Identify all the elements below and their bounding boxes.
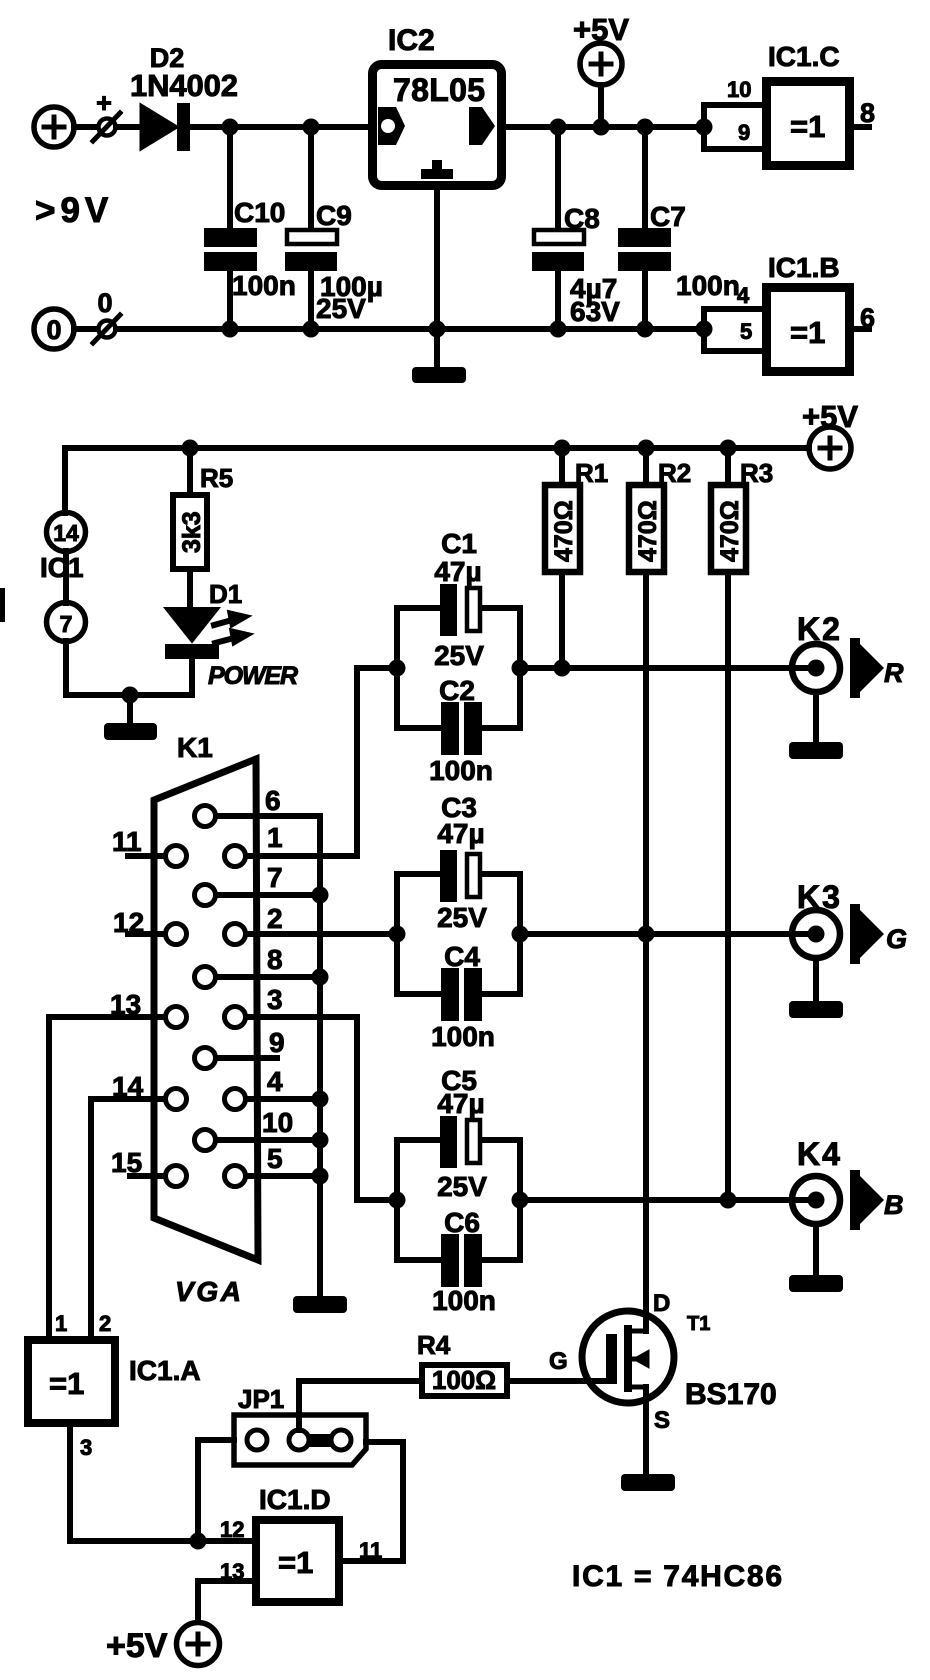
svg-text:C8: C8 [564,203,600,234]
capacitor block C5/C6 left rail [394,1140,400,1260]
JP1 pin b contact [289,1430,309,1450]
junction: pin 7 on bus [312,887,329,904]
IC1.C tied input structure pins 10/9 [704,105,766,149]
junction: R5 top on +5V rail [182,440,199,457]
wire: pin 14 (VS) to IC1.A pin 2 [91,1099,164,1336]
wire: VGA pin 3 node to C5/C6 block [357,1197,397,1203]
svg-text:6: 6 [265,785,281,816]
junction: pin 8 on bus [312,969,329,986]
svg-text:IC1.B: IC1.B [768,252,840,283]
IC1 supply pin 14 [47,513,86,552]
junction: R2/T1 drain on green line [638,926,655,943]
IC2 internal ground symbol [421,169,453,179]
wire: pin 2 (green video) to C3/C4 [247,931,397,937]
svg-text:D1: D1 [209,579,242,609]
wire: K2 ground stub [813,692,819,742]
ground symbol under K3 [789,1001,843,1018]
wire: pin 5 to ground bus [247,1173,320,1179]
svg-text:25V: 25V [437,902,487,933]
capacitor C2 100n [397,725,520,731]
junction: R2 top on +5V rail [638,440,655,457]
junction: C7 top node [637,119,654,136]
svg-text:3k3: 3k3 [178,511,206,553]
wire: D2 cathode to IC2 input [190,124,368,130]
resistor R2 470ohm [643,448,649,934]
wire: pin 13 (HS) to IC1.A pin 1 [49,1017,164,1336]
svg-text:BS170: BS170 [685,1378,777,1411]
svg-text:12: 12 [113,907,144,938]
wire: pin 9 stub (n.c.) [217,1055,277,1061]
wire: pin 3 (blue video) to C5/C6 [247,1017,357,1200]
wire: pin 11 stub [128,853,164,859]
connector pin symbol (+) [99,119,116,136]
terminal +9V input [34,107,74,147]
connector pin symbol (0) [99,321,116,338]
svg-text:47µ: 47µ [437,818,484,849]
svg-text:IC1.D: IC1.D [259,1484,331,1515]
svg-text:25V: 25V [434,640,484,671]
jumper JP1 body [234,1415,366,1465]
svg-text:R1: R1 [575,458,608,488]
K1 pin 14 contact [166,1089,187,1110]
svg-text:3: 3 [267,984,283,1015]
svg-text:K3: K3 [797,879,842,915]
wire: +9V terminal to input connector [74,124,96,130]
wire: R4 to T1 gate [507,1378,607,1384]
XOR gate IC1.D [256,1520,339,1602]
svg-text:0: 0 [97,288,112,318]
svg-text:IC1.C: IC1.C [768,41,840,72]
capacitor C9 (electrolytic) [308,127,314,329]
voltage regulator IC2 78L05 [373,65,502,186]
wire: pin 14 to pin 7 [63,551,69,603]
LED D1 [165,608,219,642]
K1 pin 11 contact [166,846,187,867]
svg-text:10: 10 [262,1107,293,1138]
svg-text:C9: C9 [316,200,352,231]
junction: ground node under D1 [122,687,139,704]
svg-text:15: 15 [111,1147,142,1178]
wire: T1 drain up to green line [643,934,649,1331]
K1 pin 6 contact [195,806,216,827]
svg-text:25V: 25V [437,1171,487,1202]
wire: 0V rail [116,326,704,332]
K1 pin 9 contact [195,1048,216,1069]
connector K2 [792,644,840,692]
svg-text:11: 11 [359,1538,382,1563]
svg-text:VGA: VGA [175,1276,241,1307]
resistor R3 470ohm [725,448,731,1200]
svg-text:R5: R5 [200,463,233,493]
XOR gate IC1.C [767,82,850,166]
junction: C9 bottom on 0V rail [303,321,320,338]
wire: pin 1 (red video) to C1/C2 [247,668,357,856]
svg-text:C10: C10 [234,197,285,228]
svg-text:7: 7 [60,611,73,637]
svg-text:12: 12 [220,1517,244,1542]
wire: IC2 ground pin down to 0V rail and ground [434,190,440,367]
capacitor block C1/C2 left rail [394,608,400,728]
wire: blue video line to K4 [520,1197,816,1203]
wire: K1 ground bus [317,816,323,1296]
wire: pin 8 to ground bus [217,974,320,980]
svg-text:IC2: IC2 [388,24,435,57]
terminal +5V (top) [580,43,622,85]
wire: pin 6 to ground bus [217,813,320,819]
svg-text:R: R [884,658,904,688]
wire: VGA pin 1 node to C1/C2 block [357,665,397,671]
svg-text:R2: R2 [658,458,691,488]
svg-text:63V: 63V [570,296,620,327]
svg-text:T1: T1 [687,1313,710,1335]
svg-text:100n: 100n [432,1285,496,1316]
capacitor block C1/C2 right rail [517,608,523,728]
svg-text:C4: C4 [444,941,480,972]
svg-text:+5V: +5V [802,399,858,434]
svg-text:G: G [886,924,907,954]
K1 pin 10 contact [195,1130,216,1151]
svg-text:6: 6 [860,303,875,333]
svg-text:0: 0 [46,315,61,345]
wire: JP1 right pin to IC1.D output pin 11 [343,1442,403,1561]
svg-text:4: 4 [737,283,750,308]
svg-text:5: 5 [740,319,752,344]
junction: C10 bottom on 0V rail [222,321,239,338]
terminal +5V (middle) [809,427,851,469]
resistor R5 [187,448,193,608]
svg-text:100n: 100n [431,1021,495,1052]
svg-text:3: 3 [80,1435,92,1460]
svg-text:100n: 100n [232,270,296,301]
capacitor block C3/C4 left rail [394,874,400,994]
svg-text:=1: =1 [278,1545,313,1580]
junction: IC2 ground on 0V rail [429,321,446,338]
junction: R3 bottom on blue line [720,1192,737,1209]
connector K4 [792,1176,840,1224]
svg-text:C2: C2 [439,675,475,706]
K1 pin 2 contact [225,924,246,945]
ground symbol under K4 [789,1275,843,1292]
svg-text:IC1.A: IC1.A [129,1355,201,1386]
wire: pin 7 to ground node [66,641,192,695]
svg-text:47µ: 47µ [437,1088,484,1119]
wire: ground stub [127,695,133,723]
svg-text:C1: C1 [441,528,477,559]
wire: pin 10 to ground bus [217,1137,320,1143]
K1 pin 5 contact [225,1166,246,1187]
junction: pin 4 on bus [312,1091,329,1108]
IC2 input arrow symbol [378,107,405,145]
svg-text:9: 9 [269,1027,285,1058]
resistor R4 100ohm [422,1365,507,1396]
junction: C5/C6 right node [512,1192,529,1209]
wire: K3 ground stub [813,958,819,1001]
K1 pin 4 contact [225,1089,246,1110]
wire: pin 4 to ground bus [247,1096,320,1102]
K1 pin 12 contact [166,924,187,945]
capacitor C1 47u electrolytic [397,605,520,611]
K1 pin 3 contact [225,1007,246,1028]
IC1 supply pin 7 [47,603,86,642]
svg-text:C7: C7 [650,201,686,232]
capacitor C7 [642,127,648,329]
wire: connector to D2 anode [116,124,141,130]
svg-text:=1: =1 [790,109,825,144]
svg-text:8: 8 [860,98,875,128]
svg-text:8: 8 [267,944,283,975]
junction: IC1.C input node [696,119,713,136]
junction: C3/C4 right node [512,926,529,943]
wire: 0V terminal to connector [74,326,96,332]
output arrow B [850,1170,884,1230]
junction: C1/C2 right node [512,660,529,677]
junction: C8 top node [550,119,567,136]
JP1 pin a contact [247,1430,267,1450]
VGA connector K1 body [154,759,258,1260]
wire: green video line to K3 [520,931,816,937]
capacitor C5 47u electrolytic [397,1137,520,1143]
transistor T1 BS170 [582,1311,674,1403]
output arrow G [850,904,884,964]
svg-text:1: 1 [267,822,283,853]
svg-text:470Ω: 470Ω [634,500,662,562]
K1 pin 7 contact [195,885,216,906]
junction: C9 top node [303,119,320,136]
svg-text:14: 14 [112,1071,144,1102]
svg-text:R3: R3 [740,458,773,488]
svg-text:+5V: +5V [106,1627,168,1665]
svg-text:470Ω: 470Ω [716,500,744,562]
junction: R1 top on +5V rail [554,440,571,457]
svg-text:G: G [549,1348,568,1375]
svg-text:K2: K2 [797,611,842,647]
IC1.B tied input structure pins 4/5 [704,309,766,351]
svg-text:IC1: IC1 [40,552,84,583]
wire: JP1 left pin down to IC1.A output node [198,1440,234,1541]
svg-text:K1: K1 [177,732,213,763]
K1 pin 15 contact [166,1166,187,1187]
output arrow R [850,638,884,698]
junction: IC1.B input node [696,321,713,338]
JP1 pin c contact [331,1430,351,1450]
svg-text:B: B [884,1190,904,1220]
wire: IC1.B output pin 6 [854,326,869,332]
junction: pin 10 on bus [312,1132,329,1149]
capacitor C6 100n [397,1257,520,1263]
svg-text:10: 10 [727,77,751,102]
wire: pin 12 stub [128,931,164,937]
svg-text:K4: K4 [797,1136,842,1172]
svg-text:5: 5 [267,1143,283,1174]
junction: +5V terminal node [593,119,610,136]
svg-text:R4: R4 [417,1330,451,1360]
K1 pin 1 contact [225,846,246,867]
capacitor C10 [227,127,233,329]
capacitor C4 100n [397,991,520,997]
terminal +5V (bottom) [177,1623,220,1666]
ground symbol under K1 bus [293,1296,347,1313]
capacitor C8 (electrolytic) [555,127,561,329]
junction: C1/C2 left node [389,660,406,677]
junction: C8 bottom on 0V rail [550,321,567,338]
XOR gate IC1.A [28,1340,115,1423]
wire: IC2 output to +5V node / IC1.C input [506,124,704,130]
svg-text:JP1: JP1 [238,1384,284,1414]
svg-text:=1: =1 [49,1366,84,1401]
svg-text:100n: 100n [676,270,740,301]
svg-text:470Ω: 470Ω [550,500,578,562]
svg-text:1N4002: 1N4002 [130,68,238,103]
svg-text:100n: 100n [429,755,493,786]
wire: pin 7 to ground bus [217,892,320,898]
connector K3 [792,910,840,958]
ground symbol under K2 [789,742,843,759]
svg-text:IC1 = 74HC86: IC1 = 74HC86 [572,1560,782,1593]
wire: K4 ground stub [813,1224,819,1275]
wire: +5V terminal to rail [598,85,604,127]
JP1 shorting link b-c [299,1434,341,1447]
svg-text:100Ω: 100Ω [432,1365,496,1395]
ground symbol under T1 [621,1474,675,1491]
svg-text:2: 2 [267,903,283,934]
wire: red video line to K2 [520,665,816,671]
ground symbol under IC2 [412,367,466,383]
svg-text:+5V: +5V [573,12,629,47]
terminal 0V input [34,309,74,349]
wire: IC1.C output pin 8 [854,124,869,130]
IC2 output arrow symbol [469,107,495,145]
wire: IC1.D pin 13 to +5V terminal [198,1581,252,1622]
junction: C7 bottom on 0V rail [637,321,654,338]
svg-text:2: 2 [99,1311,111,1336]
svg-text:47µ: 47µ [434,556,481,587]
capacitor C3 47u electrolytic [397,871,520,877]
svg-text:7: 7 [267,862,283,893]
svg-text:25V: 25V [316,293,366,324]
junction: pin 5 on bus [312,1168,329,1185]
capacitor block C5/C6 right rail [517,1140,523,1260]
ground symbol under IC1 pin 7 / D1 [104,723,157,740]
wire: +5V distribution rail [65,448,809,513]
svg-text:=1: =1 [790,315,825,350]
scan edge mark (left margin) [0,588,5,622]
svg-text:11: 11 [112,826,142,857]
capacitor block C3/C4 right rail [517,874,523,994]
diode D2 [141,105,177,149]
svg-text:C6: C6 [444,1207,480,1238]
wire: JP1 middle pin to R4 [299,1381,419,1430]
svg-text:13: 13 [110,989,141,1020]
wire: IC1.A output pin 3 to IC1.D pin 12 [70,1427,252,1541]
D1 emission arrows [214,620,234,643]
svg-text:78L05: 78L05 [393,72,485,108]
svg-text:D: D [653,1290,670,1317]
wire: pin 15 stub [130,1173,164,1179]
svg-text:+: + [96,88,112,118]
svg-text:S: S [654,1407,670,1434]
junction: R3 top on +5V rail [720,440,737,457]
K1 pin 13 contact [166,1007,187,1028]
wire: T1 source to ground [643,1387,649,1474]
svg-text:9: 9 [738,120,750,145]
junction: C10 top node [222,119,239,136]
svg-text:4: 4 [267,1066,283,1097]
junction: R1 bottom on red line [554,660,571,677]
svg-text:>9V: >9V [35,191,113,230]
svg-text:POWER: POWER [208,662,298,690]
junction: C5/C6 left node [389,1192,406,1209]
K1 pin 8 contact [195,967,216,988]
junction: C3/C4 left node [389,926,406,943]
XOR gate IC1.B [767,288,850,372]
resistor R1 470ohm [559,448,565,668]
svg-text:1: 1 [55,1311,67,1336]
svg-text:14: 14 [53,520,79,546]
junction: JP1 left pin node [190,1533,207,1550]
